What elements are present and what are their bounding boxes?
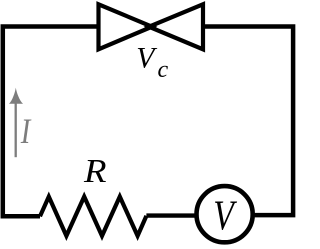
valve Vc right triangle bbox=[149, 4, 203, 49]
svg-text:I: I bbox=[20, 112, 32, 152]
svg-text:R: R bbox=[83, 153, 107, 190]
resistor R zigzag bbox=[40, 197, 146, 236]
svg-text:c: c bbox=[158, 57, 169, 83]
voltmeter V circle bbox=[197, 186, 253, 242]
wire: top rail left segment + left rail + bottom rail to resistor bbox=[3, 27, 99, 217]
current arrow head bbox=[9, 88, 23, 104]
valve Vc left triangle bbox=[99, 4, 153, 49]
svg-text:V: V bbox=[136, 43, 157, 75]
current arrow shaft bbox=[15, 100, 17, 157]
wire: resistor to voltmeter bbox=[146, 213, 198, 217]
wire: voltmeter to right rail + right rail + top rail right segment bbox=[203, 27, 293, 216]
